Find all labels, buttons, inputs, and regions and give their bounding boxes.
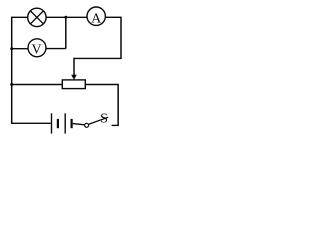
wire: rheostat to right side — [85, 84, 118, 86]
wire: top-left segment to lamp — [11, 16, 28, 18]
lamp — [28, 8, 46, 26]
voltmeter V — [28, 39, 46, 58]
svg-text:S: S — [100, 112, 108, 127]
wire: right upper vertical — [120, 17, 122, 59]
wire: riser up to top wire — [65, 17, 67, 48]
wire: left bus to voltmeter — [12, 48, 28, 50]
slider arrowhead — [71, 75, 77, 80]
wire: ammeter to top-right corner — [105, 16, 121, 18]
wire: bottom run to battery — [11, 122, 51, 124]
svg-text:V: V — [32, 43, 42, 58]
node: junction dot voltmeter branch — [10, 47, 13, 50]
wire: left bus to rheostat — [12, 84, 63, 86]
wire: slider stem down to rheostat — [73, 58, 75, 76]
ammeter A — [87, 7, 105, 27]
wire: left vertical bus — [11, 17, 13, 123]
switch S — [85, 112, 109, 128]
svg-text:A: A — [91, 12, 102, 27]
wire: voltmeter to riser — [46, 48, 66, 50]
node: junction dot rheostat branch — [10, 83, 13, 86]
wire: right lower vertical — [117, 84, 119, 126]
wire: switch contact stub — [112, 124, 119, 126]
wire: lamp to ammeter — [46, 16, 87, 18]
rheostat body — [62, 80, 85, 89]
wire: horizontal run to slider stem — [74, 57, 122, 59]
background — [0, 0, 127, 140]
battery — [52, 113, 72, 133]
node: junction dot on top wire — [64, 16, 67, 19]
wire: battery to switch — [73, 124, 85, 125]
